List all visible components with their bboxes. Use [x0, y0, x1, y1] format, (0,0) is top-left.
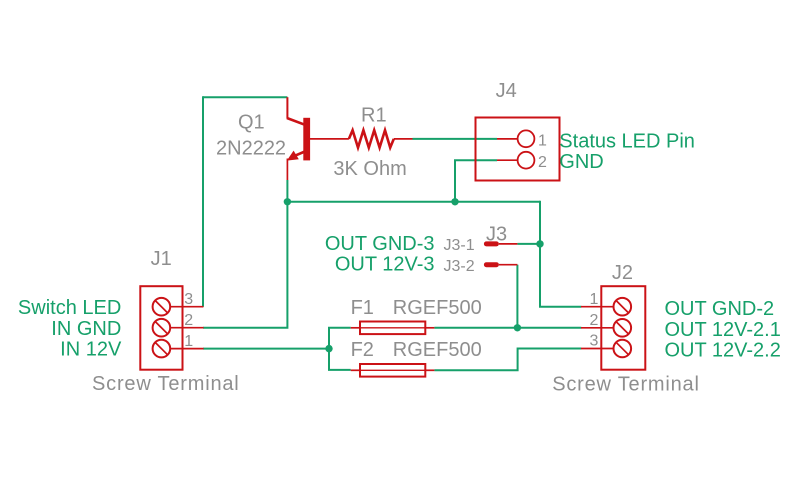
- svg-text:1: 1: [538, 133, 547, 150]
- wire: [329, 328, 351, 370]
- wire: [203, 202, 287, 328]
- wire: [413, 138, 498, 140]
- svg-text:1: 1: [589, 291, 598, 308]
- svg-text:OUT 12V-2.2: OUT 12V-2.2: [665, 340, 781, 362]
- junction: [451, 198, 458, 205]
- svg-text:OUT 12V-3: OUT 12V-3: [335, 254, 435, 276]
- svg-text:J4: J4: [496, 80, 517, 102]
- svg-text:Screw Terminal: Screw Terminal: [552, 374, 700, 396]
- svg-text:F2: F2: [351, 339, 374, 361]
- svg-text:1: 1: [184, 333, 193, 350]
- connector J2: [581, 286, 645, 370]
- svg-text:J1: J1: [151, 248, 172, 270]
- wire: [434, 349, 581, 371]
- svg-text:2: 2: [538, 154, 547, 171]
- svg-text:IN GND: IN GND: [51, 318, 121, 340]
- wire: [286, 180, 288, 202]
- svg-text:2: 2: [589, 312, 598, 329]
- junction: [325, 345, 332, 352]
- svg-text:IN 12V: IN 12V: [60, 339, 122, 361]
- svg-text:2N2222: 2N2222: [216, 138, 286, 160]
- svg-text:J3-2: J3-2: [444, 258, 475, 275]
- svg-text:R1: R1: [361, 104, 387, 126]
- svg-text:Q1: Q1: [238, 111, 265, 133]
- svg-text:Switch LED: Switch LED: [18, 297, 121, 319]
- svg-text:RGEF500: RGEF500: [393, 339, 482, 361]
- wire: [202, 96, 204, 307]
- svg-text:J3: J3: [486, 224, 507, 246]
- junction: [514, 324, 521, 331]
- fuse F2: [351, 364, 435, 377]
- svg-text:Status LED Pin: Status LED Pin: [559, 130, 695, 152]
- connector J1: [140, 286, 203, 370]
- wire: [455, 160, 497, 202]
- svg-text:Screw Terminal: Screw Terminal: [92, 373, 240, 395]
- wire: [287, 201, 540, 203]
- junction: [284, 198, 291, 205]
- svg-text:RGEF500: RGEF500: [393, 297, 482, 319]
- svg-text:J2: J2: [612, 262, 633, 284]
- svg-text:OUT GND-2: OUT GND-2: [665, 298, 775, 320]
- connector J3: [484, 241, 518, 267]
- fuse F1: [351, 322, 435, 335]
- wire: [203, 96, 287, 98]
- svg-text:OUT GND-3: OUT GND-3: [325, 233, 435, 255]
- resistor R1: [349, 130, 413, 147]
- svg-text:OUT 12V-2.1: OUT 12V-2.1: [665, 319, 781, 341]
- svg-text:F1: F1: [351, 297, 374, 319]
- junction: [536, 240, 543, 247]
- wire: [540, 201, 581, 307]
- transistor Q1: [287, 97, 349, 180]
- wire: [434, 327, 581, 329]
- svg-text:GND: GND: [559, 151, 603, 173]
- svg-text:J3-1: J3-1: [444, 237, 475, 254]
- wire: [517, 243, 540, 245]
- wire: [203, 348, 329, 350]
- svg-text:3: 3: [184, 291, 193, 308]
- svg-text:2: 2: [184, 312, 193, 329]
- svg-text:3: 3: [589, 333, 598, 350]
- svg-text:3K Ohm: 3K Ohm: [333, 158, 406, 180]
- wire: [516, 265, 518, 328]
- connector J4: [476, 118, 560, 181]
